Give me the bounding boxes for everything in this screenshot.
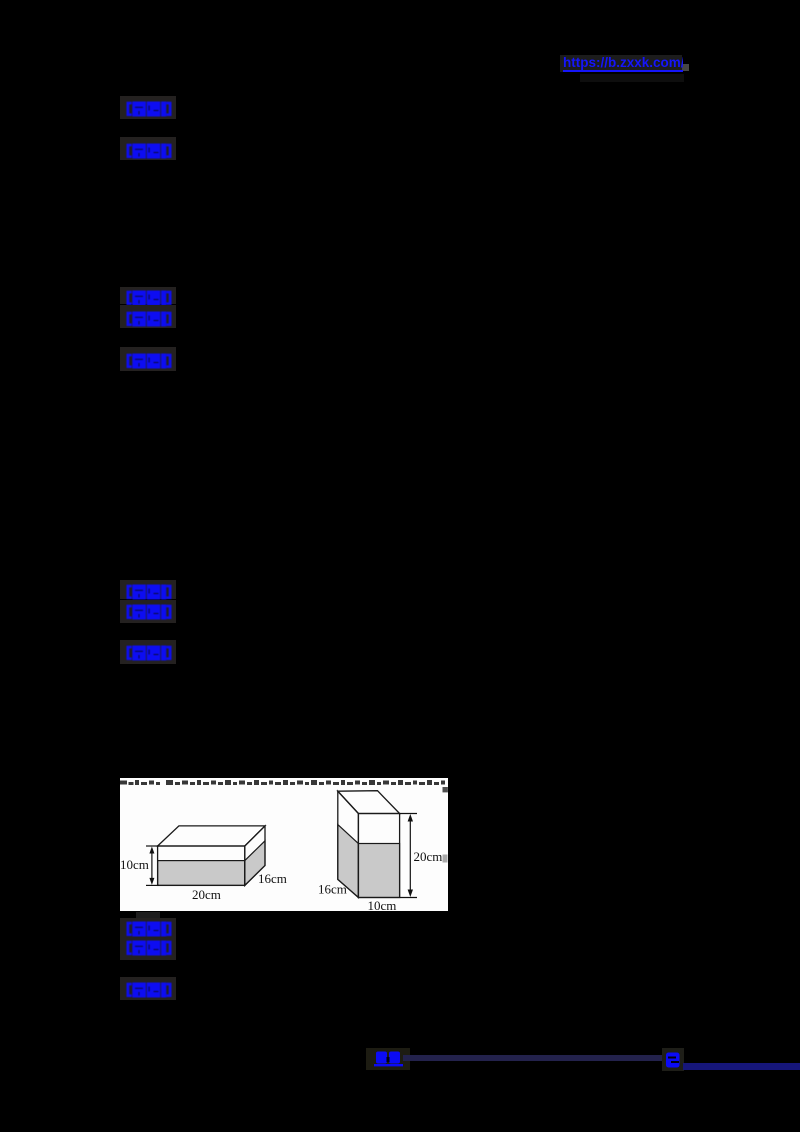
label [jieda] P1 glyphs — [126, 353, 172, 369]
footer: blue word pair — [374, 1050, 404, 1067]
left dimension arrow 10cm — [146, 846, 159, 885]
right cuboid: top face — [338, 791, 400, 814]
label [fenxi] P2 box — [120, 600, 176, 623]
svg-text:20cm: 20cm — [192, 887, 221, 902]
svg-text:16cm: 16cm — [258, 871, 287, 886]
left cuboid: right face — [245, 826, 265, 886]
hyperlink top right: dark highlight box — [560, 55, 682, 72]
label [kaodian] P2 box — [120, 580, 176, 599]
label [kaodian] P1 box — [120, 287, 176, 304]
svg-text:20cm: 20cm — [414, 849, 443, 864]
label [fenxi] P3 box — [120, 937, 176, 960]
left cuboid: top face — [158, 826, 265, 846]
right cuboid: left face — [338, 791, 359, 897]
label [jieda] P3 glyphs — [126, 982, 172, 998]
svg-text:10cm: 10cm — [368, 898, 397, 911]
label [fenxi] P1 glyphs — [126, 311, 172, 327]
right cuboid: front face — [358, 814, 399, 898]
label [fenxi] P2 glyphs — [126, 604, 172, 620]
svg-text:16cm: 16cm — [318, 882, 347, 897]
bump above P3 box — [136, 912, 160, 919]
label [jieda] line1 box — [120, 96, 176, 119]
footer: page field gray box left — [366, 1048, 410, 1070]
svg-text:10cm: 10cm — [120, 857, 149, 872]
label [kaodian] P2 glyphs — [126, 584, 172, 600]
label [jieda] P2 glyphs — [126, 645, 172, 661]
label [kaodian] P3 box — [120, 918, 176, 937]
left cuboid: water (right face) — [245, 841, 265, 886]
footer: navy rule left segment — [403, 1055, 663, 1061]
footer: navy rule right segment — [683, 1063, 800, 1070]
right cuboid: water (left face) — [338, 825, 359, 898]
label [kaodian] P1 glyphs — [126, 290, 172, 306]
footer: blue page number glyph — [665, 1051, 681, 1069]
left cuboid: water (front face) — [158, 861, 245, 886]
footer: page number gray box — [662, 1048, 684, 1071]
watermark square mid-right — [443, 855, 448, 863]
faint line under link — [580, 74, 684, 82]
hyperlink URL text — [563, 56, 683, 72]
label [jieda] P3 box — [120, 977, 176, 1000]
label [jieda] P2 box — [120, 640, 176, 664]
label [dianping] box — [120, 137, 176, 160]
label [jieda] line1 glyphs — [126, 101, 172, 117]
watermark square top-right — [443, 787, 448, 792]
label [dianping] glyphs — [126, 143, 172, 159]
label [fenxi] P1 box — [120, 305, 176, 328]
label [fenxi] P3 glyphs — [126, 940, 172, 956]
figure: white image with two cuboids — [120, 778, 448, 911]
left cuboid: front face — [158, 846, 245, 885]
right cuboid: water (front face) — [358, 844, 399, 898]
shared label glyph defs — [0, 0, 1, 1]
label [jieda] P1 box — [120, 347, 176, 371]
clipped text row at top of figure — [120, 780, 445, 785]
right dimension arrow 20cm — [400, 814, 417, 898]
hyperlink top right: gray field mark — [682, 64, 689, 71]
label [kaodian] P3 glyphs — [126, 921, 172, 937]
